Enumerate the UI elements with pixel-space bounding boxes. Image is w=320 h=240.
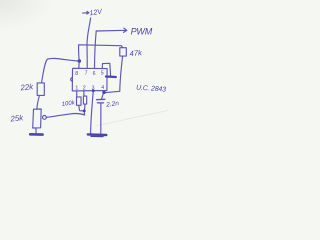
svg-text:2: 2	[83, 86, 86, 92]
svg-text:1: 1	[75, 86, 78, 92]
svg-text:7: 7	[85, 71, 88, 77]
svg-text:PWM: PWM	[131, 26, 153, 36]
svg-text:4: 4	[101, 85, 104, 91]
svg-text:8: 8	[75, 71, 78, 77]
svg-text:25k: 25k	[9, 113, 25, 123]
svg-text:5: 5	[101, 71, 104, 77]
svg-text:3: 3	[92, 85, 95, 91]
svg-text:6: 6	[93, 71, 96, 77]
svg-text:22k: 22k	[19, 82, 35, 92]
svg-text:47k: 47k	[129, 48, 143, 58]
